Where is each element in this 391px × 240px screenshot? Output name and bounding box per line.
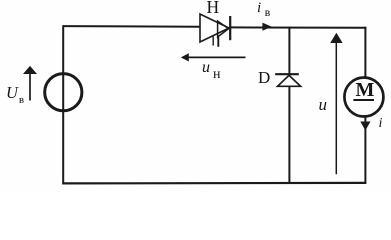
label D bbox=[258, 68, 270, 88]
label M bbox=[356, 79, 375, 102]
label u_H bbox=[202, 59, 218, 77]
arrow U_B bbox=[23, 66, 37, 101]
motor M circle bbox=[344, 78, 383, 117]
wire right branch lower bbox=[364, 117, 366, 184]
thyristor H gate lead 2 bbox=[217, 37, 219, 47]
voltage source circle bbox=[45, 74, 82, 111]
thyristor H gate lead 1 bbox=[212, 36, 214, 45]
wire bottom bbox=[62, 182, 366, 185]
label u bbox=[319, 95, 328, 115]
arrow u (voltage across load) bbox=[330, 33, 342, 174]
wire left branch bbox=[62, 25, 64, 184]
wire top-right segment bbox=[231, 26, 367, 28]
wire top-left segment bbox=[63, 25, 200, 28]
motor M underline bbox=[353, 99, 374, 101]
wire diode branch upper bbox=[288, 27, 290, 75]
wire diode branch lower bbox=[288, 86, 290, 183]
arrow i head (motor current) bbox=[360, 122, 370, 131]
label i bbox=[379, 116, 383, 132]
arrow i_B head on top wire bbox=[262, 23, 271, 31]
label U_B bbox=[6, 83, 23, 103]
thyristor H outer triangle bbox=[200, 14, 229, 42]
diode D cathode bar bbox=[275, 73, 299, 75]
wire right branch upper bbox=[364, 27, 366, 78]
diode D triangle bbox=[278, 75, 301, 86]
arrow u_H bbox=[181, 53, 246, 61]
thyristor H cathode bar bbox=[229, 16, 231, 40]
label H bbox=[207, 0, 220, 18]
thyristor H inner triangle bbox=[218, 21, 229, 37]
label i_B bbox=[257, 0, 267, 17]
